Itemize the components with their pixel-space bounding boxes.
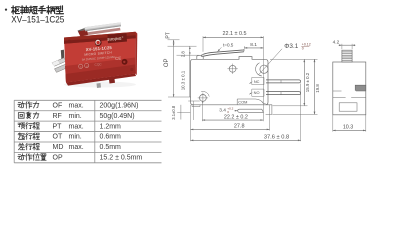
svg-text:0: 0 bbox=[227, 110, 229, 114]
svg-text:3.4: 3.4 bbox=[219, 107, 226, 113]
svg-text:max.: max. bbox=[69, 144, 84, 151]
metal lever bbox=[85, 22, 122, 31]
svg-text:OT: OT bbox=[53, 134, 63, 141]
end view: internal parting lines bbox=[333, 90, 342, 92]
mounting hole (bottom left) with crosshair and boss arc bbox=[200, 95, 207, 102]
table row 4: OT bbox=[18, 133, 39, 140]
svg-text:4.2: 4.2 bbox=[333, 39, 340, 45]
terminal bend piece bottom right bbox=[266, 105, 272, 115]
title hanzi 枢轴短手柄型 bbox=[12, 6, 64, 14]
extension at terminal bottom bbox=[273, 113, 318, 115]
svg-text:RF: RF bbox=[53, 113, 62, 120]
table row 6: OP bbox=[18, 154, 46, 161]
svg-text:27.8: 27.8 bbox=[234, 124, 245, 130]
svg-text:COM: COM bbox=[238, 99, 247, 104]
dim 19.8 bbox=[314, 59, 316, 114]
svg-text:min.: min. bbox=[69, 134, 82, 141]
leader line to phi3.1 label bbox=[259, 49, 282, 75]
table row 3: PT bbox=[18, 122, 40, 129]
svg-text:22.1 ± 0.5: 22.1 ± 0.5 bbox=[223, 31, 247, 37]
svg-text:MD: MD bbox=[53, 144, 64, 151]
NO terminal slot bbox=[252, 89, 264, 96]
svg-text:OF: OF bbox=[53, 102, 63, 109]
OP dimension line bbox=[173, 40, 175, 97]
pivot bracket top-left bbox=[197, 55, 203, 59]
extension lines bottom bbox=[190, 105, 192, 141]
switch body bbox=[64, 32, 136, 83]
svg-text:Φ3.1: Φ3.1 bbox=[284, 43, 298, 50]
certification marks bbox=[78, 56, 122, 69]
svg-text:15.9 ± 0.2: 15.9 ± 0.2 bbox=[305, 72, 310, 92]
svg-text:15.2 ± 0.5mm: 15.2 ± 0.5mm bbox=[100, 155, 143, 162]
NC terminal slot bbox=[252, 77, 264, 84]
lever (short hinge lever) bbox=[203, 50, 244, 55]
svg-text:1.2mm: 1.2mm bbox=[100, 123, 122, 130]
svg-text:max.: max. bbox=[69, 102, 84, 109]
svg-text:0: 0 bbox=[302, 47, 304, 51]
reset button bbox=[95, 39, 102, 46]
extension from body bottom right bbox=[273, 105, 308, 107]
mounting hole (upper middle) with crosshair bbox=[229, 65, 236, 72]
NO terminal blade bbox=[266, 92, 301, 95]
free position reference line bbox=[168, 39, 180, 41]
svg-text:50g(0.49N): 50g(0.49N) bbox=[100, 113, 135, 120]
svg-text:NO: NO bbox=[254, 90, 260, 95]
svg-text:min.: min. bbox=[69, 113, 82, 120]
mounting foot step bottom-left bbox=[192, 105, 200, 107]
bottom hole reference line bbox=[168, 96, 191, 98]
terminal base dark slot bbox=[61, 50, 65, 60]
svg-text:10.3 ± 0.1: 10.3 ± 0.1 bbox=[181, 70, 186, 90]
table left border bbox=[13, 100, 15, 163]
table row 5: MD bbox=[18, 143, 39, 150]
lever level reference line bbox=[177, 54, 200, 56]
dim 15.9 +/- 0.2 bbox=[303, 59, 305, 106]
svg-text:19.8: 19.8 bbox=[315, 84, 320, 93]
left terminal tabs bbox=[52, 58, 66, 66]
end view: side notch bbox=[355, 85, 366, 90]
dim 27.8 bbox=[191, 128, 270, 130]
dim 10.3 bbox=[332, 115, 334, 132]
operating reference line bbox=[168, 45, 197, 47]
dim 22.2 +/- 0.2 bbox=[202, 119, 263, 121]
dim 22.1 +/- 0.5 bbox=[202, 36, 204, 52]
svg-text:t=0.5: t=0.5 bbox=[223, 42, 234, 47]
table row 1: OF bbox=[18, 102, 39, 109]
svg-text:10.3: 10.3 bbox=[343, 124, 353, 130]
svg-text:0.5mm: 0.5mm bbox=[100, 144, 122, 151]
svg-text:max.: max. bbox=[69, 123, 84, 130]
bullet dot bbox=[5, 9, 7, 11]
end view: plunger button bbox=[342, 50, 352, 62]
svg-text:OP: OP bbox=[53, 155, 63, 162]
table column divider bbox=[94, 100, 96, 163]
switch pin hole bbox=[122, 59, 128, 65]
mounting hole phi3.1 (top right) bbox=[260, 65, 268, 73]
svg-text:200g(1.96N): 200g(1.96N) bbox=[100, 102, 139, 109]
dim 37.6 +/- 0.8 bbox=[191, 139, 301, 141]
svg-text:NC: NC bbox=[254, 79, 260, 84]
dim 8.1 bbox=[243, 46, 245, 49]
svg-text:0.6mm: 0.6mm bbox=[100, 134, 122, 141]
svg-text:22.2 ± 0.2: 22.2 ± 0.2 bbox=[224, 114, 248, 120]
COM bent terminal below body bbox=[238, 109, 264, 112]
svg-text:CQC: CQC bbox=[94, 62, 102, 67]
dim 4.2 bbox=[341, 44, 343, 49]
NC terminal blade bbox=[266, 80, 301, 83]
end view: body bbox=[333, 62, 366, 115]
spec table bbox=[14, 100, 161, 163]
svg-text:PT: PT bbox=[165, 32, 171, 38]
product photo: red micro switch bbox=[52, 22, 137, 88]
printed model text on body bbox=[81, 45, 116, 62]
svg-text:37.6 ± 0.8: 37.6 ± 0.8 bbox=[264, 134, 289, 140]
svg-text:CE: CE bbox=[115, 56, 122, 61]
svg-text:XV–151–1C25: XV–151–1C25 bbox=[11, 15, 64, 26]
bottom terminal bbox=[97, 83, 102, 88]
table row 2: RF bbox=[18, 112, 39, 119]
lever hinge bbox=[78, 28, 87, 34]
svg-text:3.1±0.8: 3.1±0.8 bbox=[171, 105, 176, 120]
brand label dark patch bbox=[108, 33, 128, 43]
svg-text:OP: OP bbox=[164, 58, 170, 67]
COM contact plate inside body bbox=[237, 99, 265, 104]
svg-text:PT: PT bbox=[53, 123, 63, 130]
svg-text:2.8: 2.8 bbox=[181, 51, 186, 58]
side view: switch body outline bbox=[191, 57, 269, 105]
end view: terminal slot bbox=[339, 103, 357, 111]
svg-text:8.1: 8.1 bbox=[250, 42, 257, 48]
extension from body top to right bbox=[270, 58, 318, 60]
